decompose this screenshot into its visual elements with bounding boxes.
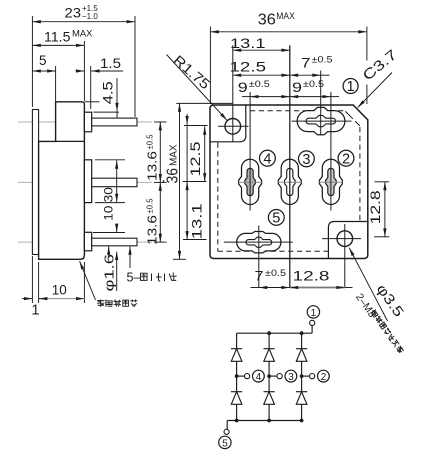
dim 1.5: [90, 66, 92, 109]
terminal slot 2: [319, 159, 342, 204]
dim 36 MAX (front top): [209, 27, 211, 105]
lead 1 base: [84, 112, 91, 132]
node tap 3: [267, 374, 271, 378]
node tap 4: [235, 374, 239, 378]
resin body (side): [39, 102, 85, 259]
svg-text:36: 36: [164, 168, 181, 184]
centerline hole BR vertical: [344, 224, 346, 288]
terminal slot 1 (top): [297, 107, 345, 134]
mounting hole bottom-right: [337, 231, 353, 247]
diode upper 4: [231, 348, 242, 350]
dim 12.8 (right side): [375, 181, 390, 183]
centerline lead 1: [18, 121, 152, 123]
dim 12.5 (left side): [184, 125, 208, 127]
svg-text:12.5: 12.5: [188, 141, 203, 176]
dim 13.1 (top): [233, 49, 290, 51]
svg-text:MAX: MAX: [168, 144, 179, 166]
dim 12.5 (top): [233, 74, 290, 76]
junction top rail / branch 2: [300, 331, 304, 335]
svg-text:3: 3: [302, 152, 310, 168]
terminal slot 5 (bottom): [237, 232, 281, 253]
diode lower 2: [296, 391, 307, 393]
svg-text:5: 5: [39, 53, 47, 68]
svg-text:10: 10: [102, 205, 116, 220]
leader C3.7: [358, 73, 392, 108]
terminal number 1: [343, 79, 358, 94]
dim 9 +-0.5 (right): [290, 96, 331, 98]
svg-text:φ1.6: φ1.6: [102, 254, 117, 292]
terminal 1 (schematic): [311, 326, 313, 334]
svg-text:±0.5: ±0.5: [144, 134, 154, 149]
centerline hole TL vertical: [232, 45, 234, 141]
junction bottom rail / branch 4: [235, 419, 239, 423]
svg-text:2: 2: [342, 151, 350, 167]
centerline slot 5: [258, 226, 260, 288]
lead 1 wire: [92, 118, 137, 126]
terminal 4 (schematic): [253, 370, 265, 382]
dim 7 +-0.5 (bottom): [251, 287, 259, 289]
terminal number 3: [299, 151, 315, 167]
lead 3 base: [84, 232, 91, 251]
body outline front: [210, 105, 368, 259]
dim 1 plate: [31, 256, 33, 303]
svg-text:12.5: 12.5: [230, 59, 267, 74]
mounting boss top-left: [211, 105, 246, 142]
centerline lead 2: [18, 181, 152, 183]
terminal number 4: [260, 150, 276, 166]
wire branch 4: [236, 333, 238, 420]
dim 13.6 lower: [154, 241, 167, 243]
svg-text:4: 4: [263, 151, 271, 167]
svg-text:11.5: 11.5: [44, 29, 71, 44]
svg-text:MAX: MAX: [72, 29, 93, 39]
svg-text:1: 1: [32, 303, 40, 319]
centerline lead 3: [18, 241, 152, 243]
dim 12.8 (bottom): [290, 287, 345, 289]
terminal 2 (schematic): [318, 370, 330, 382]
hidden inner outline (dashed): [217, 143, 219, 252]
svg-text:±0.5: ±0.5: [265, 268, 286, 278]
leader φ3.5 / 2-M3 holes: [349, 248, 387, 321]
svg-text:5–: 5–: [127, 271, 141, 285]
terminal number 2: [338, 150, 354, 166]
svg-text:9: 9: [238, 80, 248, 95]
svg-text:7: 7: [301, 55, 311, 70]
centerline column 2: [330, 92, 332, 211]
terminal 5 (schematic): [226, 421, 228, 430]
svg-text:1: 1: [347, 79, 355, 95]
svg-text:23: 23: [65, 6, 82, 21]
wire branch 2: [301, 333, 303, 420]
dim 5: [55, 66, 57, 101]
dim 13.6 upper: [154, 121, 167, 123]
svg-text:1.5: 1.5: [100, 56, 121, 71]
terminal 3 (schematic): [285, 370, 297, 382]
label 5-copper lead wires: [129, 246, 131, 268]
dim 13.1 (left side): [186, 114, 188, 125]
svg-text:5: 5: [272, 211, 280, 227]
terminal number 5: [268, 210, 284, 226]
dim 11.5 MAX: [83, 41, 85, 101]
label φ1.6 lead dia: [108, 246, 110, 258]
svg-text:±0.5: ±0.5: [144, 198, 154, 213]
dim 9 +-0.5 (left): [242, 96, 250, 98]
lead 2 base: [84, 160, 91, 203]
svg-text:4.5: 4.5: [101, 81, 116, 104]
svg-text:±0.5: ±0.5: [312, 53, 333, 64]
svg-text:36: 36: [258, 11, 276, 28]
dim 36 MAX (side): [176, 102, 232, 104]
lead 3 wire: [92, 238, 137, 246]
diode upper 3: [264, 348, 275, 350]
svg-text:±0.5: ±0.5: [249, 78, 270, 89]
centerline slot 1: [320, 71, 322, 136]
diode lower 4: [231, 391, 242, 393]
dim 10 depth: [38, 262, 40, 303]
junction bottom rail / branch 2: [300, 419, 304, 423]
svg-text:30: 30: [102, 187, 116, 202]
leader R1.75: [167, 55, 228, 121]
svg-text:10: 10: [52, 282, 67, 297]
junction bottom rail / branch 3: [267, 419, 271, 423]
wire top rail: [237, 332, 313, 334]
svg-text:9: 9: [292, 80, 302, 95]
svg-text:12.8: 12.8: [368, 190, 383, 224]
svg-text:2: 2: [321, 372, 327, 383]
svg-text:5: 5: [222, 438, 228, 449]
svg-text:3: 3: [288, 372, 294, 383]
svg-text:13.6: 13.6: [144, 151, 159, 181]
svg-text:1: 1: [311, 308, 317, 319]
node tap 2: [300, 374, 304, 378]
body step line: [56, 140, 85, 142]
mounting plate (side): [32, 110, 38, 255]
dim 23 +1.5/-1.0: [31, 16, 33, 107]
mounting boss bottom-right: [328, 222, 367, 259]
centerline column 4: [249, 92, 251, 211]
mounting hole top-left: [225, 119, 241, 135]
wire branch 3: [268, 333, 270, 420]
svg-text:MAX: MAX: [276, 11, 295, 22]
svg-text:±0.5: ±0.5: [303, 78, 324, 89]
wire bottom rail: [227, 420, 301, 422]
svg-text:7: 7: [255, 268, 264, 283]
junction top rail / branch 3: [267, 331, 271, 335]
diode upper 2: [296, 348, 307, 350]
dim 7 +-0.5 (top): [290, 74, 321, 76]
dim 10 / 30 lead pitch: [95, 159, 125, 161]
dim 4.5: [85, 101, 100, 103]
terminal slot 3: [278, 159, 301, 204]
label resin case: [80, 261, 96, 300]
svg-text:12.8: 12.8: [293, 269, 330, 284]
centerline column 3 (main): [289, 45, 291, 287]
svg-text:13.6: 13.6: [144, 215, 159, 245]
svg-text:−1.0: −1.0: [82, 12, 98, 21]
svg-text:13.1: 13.1: [189, 203, 204, 239]
svg-text:4: 4: [256, 372, 262, 383]
diode lower 3: [264, 391, 275, 393]
lead 2 wire: [92, 178, 137, 187]
terminal slot 4: [239, 159, 262, 204]
svg-text:13.1: 13.1: [230, 36, 266, 51]
